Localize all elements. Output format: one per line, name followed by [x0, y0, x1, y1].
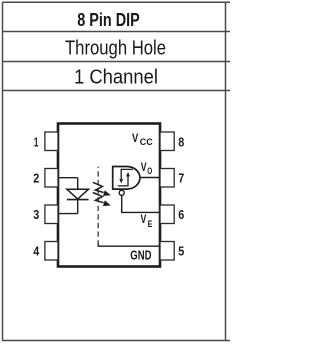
pin 8 box: [160, 132, 174, 151]
pin 4 box: [45, 242, 58, 261]
svg-text:O: O: [147, 166, 152, 176]
svg-text:V: V: [132, 133, 139, 145]
header row 3: channel count: [74, 67, 158, 89]
svg-text:1: 1: [34, 135, 39, 149]
svg-text:3: 3: [33, 208, 39, 222]
svg-text:V: V: [141, 162, 147, 174]
svg-text:5: 5: [178, 245, 184, 259]
hysteresis symbol inside gate: [118, 169, 133, 186]
pin 3 box: [45, 205, 58, 224]
svg-text:8: 8: [178, 135, 184, 149]
light emission arrow 2: [93, 193, 111, 207]
pin 2 box: [45, 169, 58, 188]
wire: shield to GND / pin 5: [98, 243, 160, 246]
pin number 2: [33, 172, 39, 186]
optical shield (dashed): [97, 167, 99, 244]
svg-text:CC: CC: [140, 137, 154, 147]
pin 7 box: [160, 169, 174, 188]
header row 2: mounting style: [65, 37, 166, 59]
LED emitter diode: [67, 189, 89, 199]
svg-text:GND: GND: [130, 249, 151, 263]
DIP package body U1: [58, 124, 160, 267]
enable bubble on gate: [119, 190, 124, 195]
pin number 3: [33, 208, 39, 222]
pin 1 box: [45, 132, 58, 151]
wire: LED anode stem: [77, 178, 79, 190]
table grid lines: [3, 2, 231, 341]
wire: pin 2 to LED anode: [59, 177, 77, 179]
svg-text:8 Pin DIP: 8 Pin DIP: [77, 9, 140, 30]
pin 5 box: [160, 242, 174, 261]
label GND: [130, 249, 151, 263]
wire: LED cathode to pin 3: [59, 213, 77, 215]
wire: enable bubble to pin 6 (VE): [122, 195, 160, 212]
svg-text:V: V: [141, 214, 147, 226]
svg-text:1 Channel: 1 Channel: [74, 67, 158, 89]
svg-text:4: 4: [33, 245, 39, 259]
pin 6 box: [160, 205, 174, 224]
label VCC: [132, 133, 153, 147]
light emission arrow 1: [93, 182, 111, 196]
svg-text:Through Hole: Through Hole: [65, 37, 166, 59]
svg-text:6: 6: [178, 208, 184, 222]
wire: LED cathode stem: [77, 200, 79, 214]
svg-text:7: 7: [178, 172, 184, 186]
label VO: [141, 162, 153, 176]
pin number 1: [34, 135, 39, 149]
header row 1: package type: [77, 9, 140, 30]
pin number 4: [33, 245, 39, 259]
svg-text:2: 2: [33, 172, 39, 186]
label VE: [141, 214, 153, 229]
detector gate U2: [113, 167, 140, 190]
pin number 6: [178, 208, 184, 222]
pin number 8: [178, 135, 184, 149]
svg-text:E: E: [148, 219, 153, 229]
pin number 5: [178, 245, 184, 259]
wire: gate output to pin 7: [140, 177, 160, 179]
pin number 7: [178, 172, 184, 186]
